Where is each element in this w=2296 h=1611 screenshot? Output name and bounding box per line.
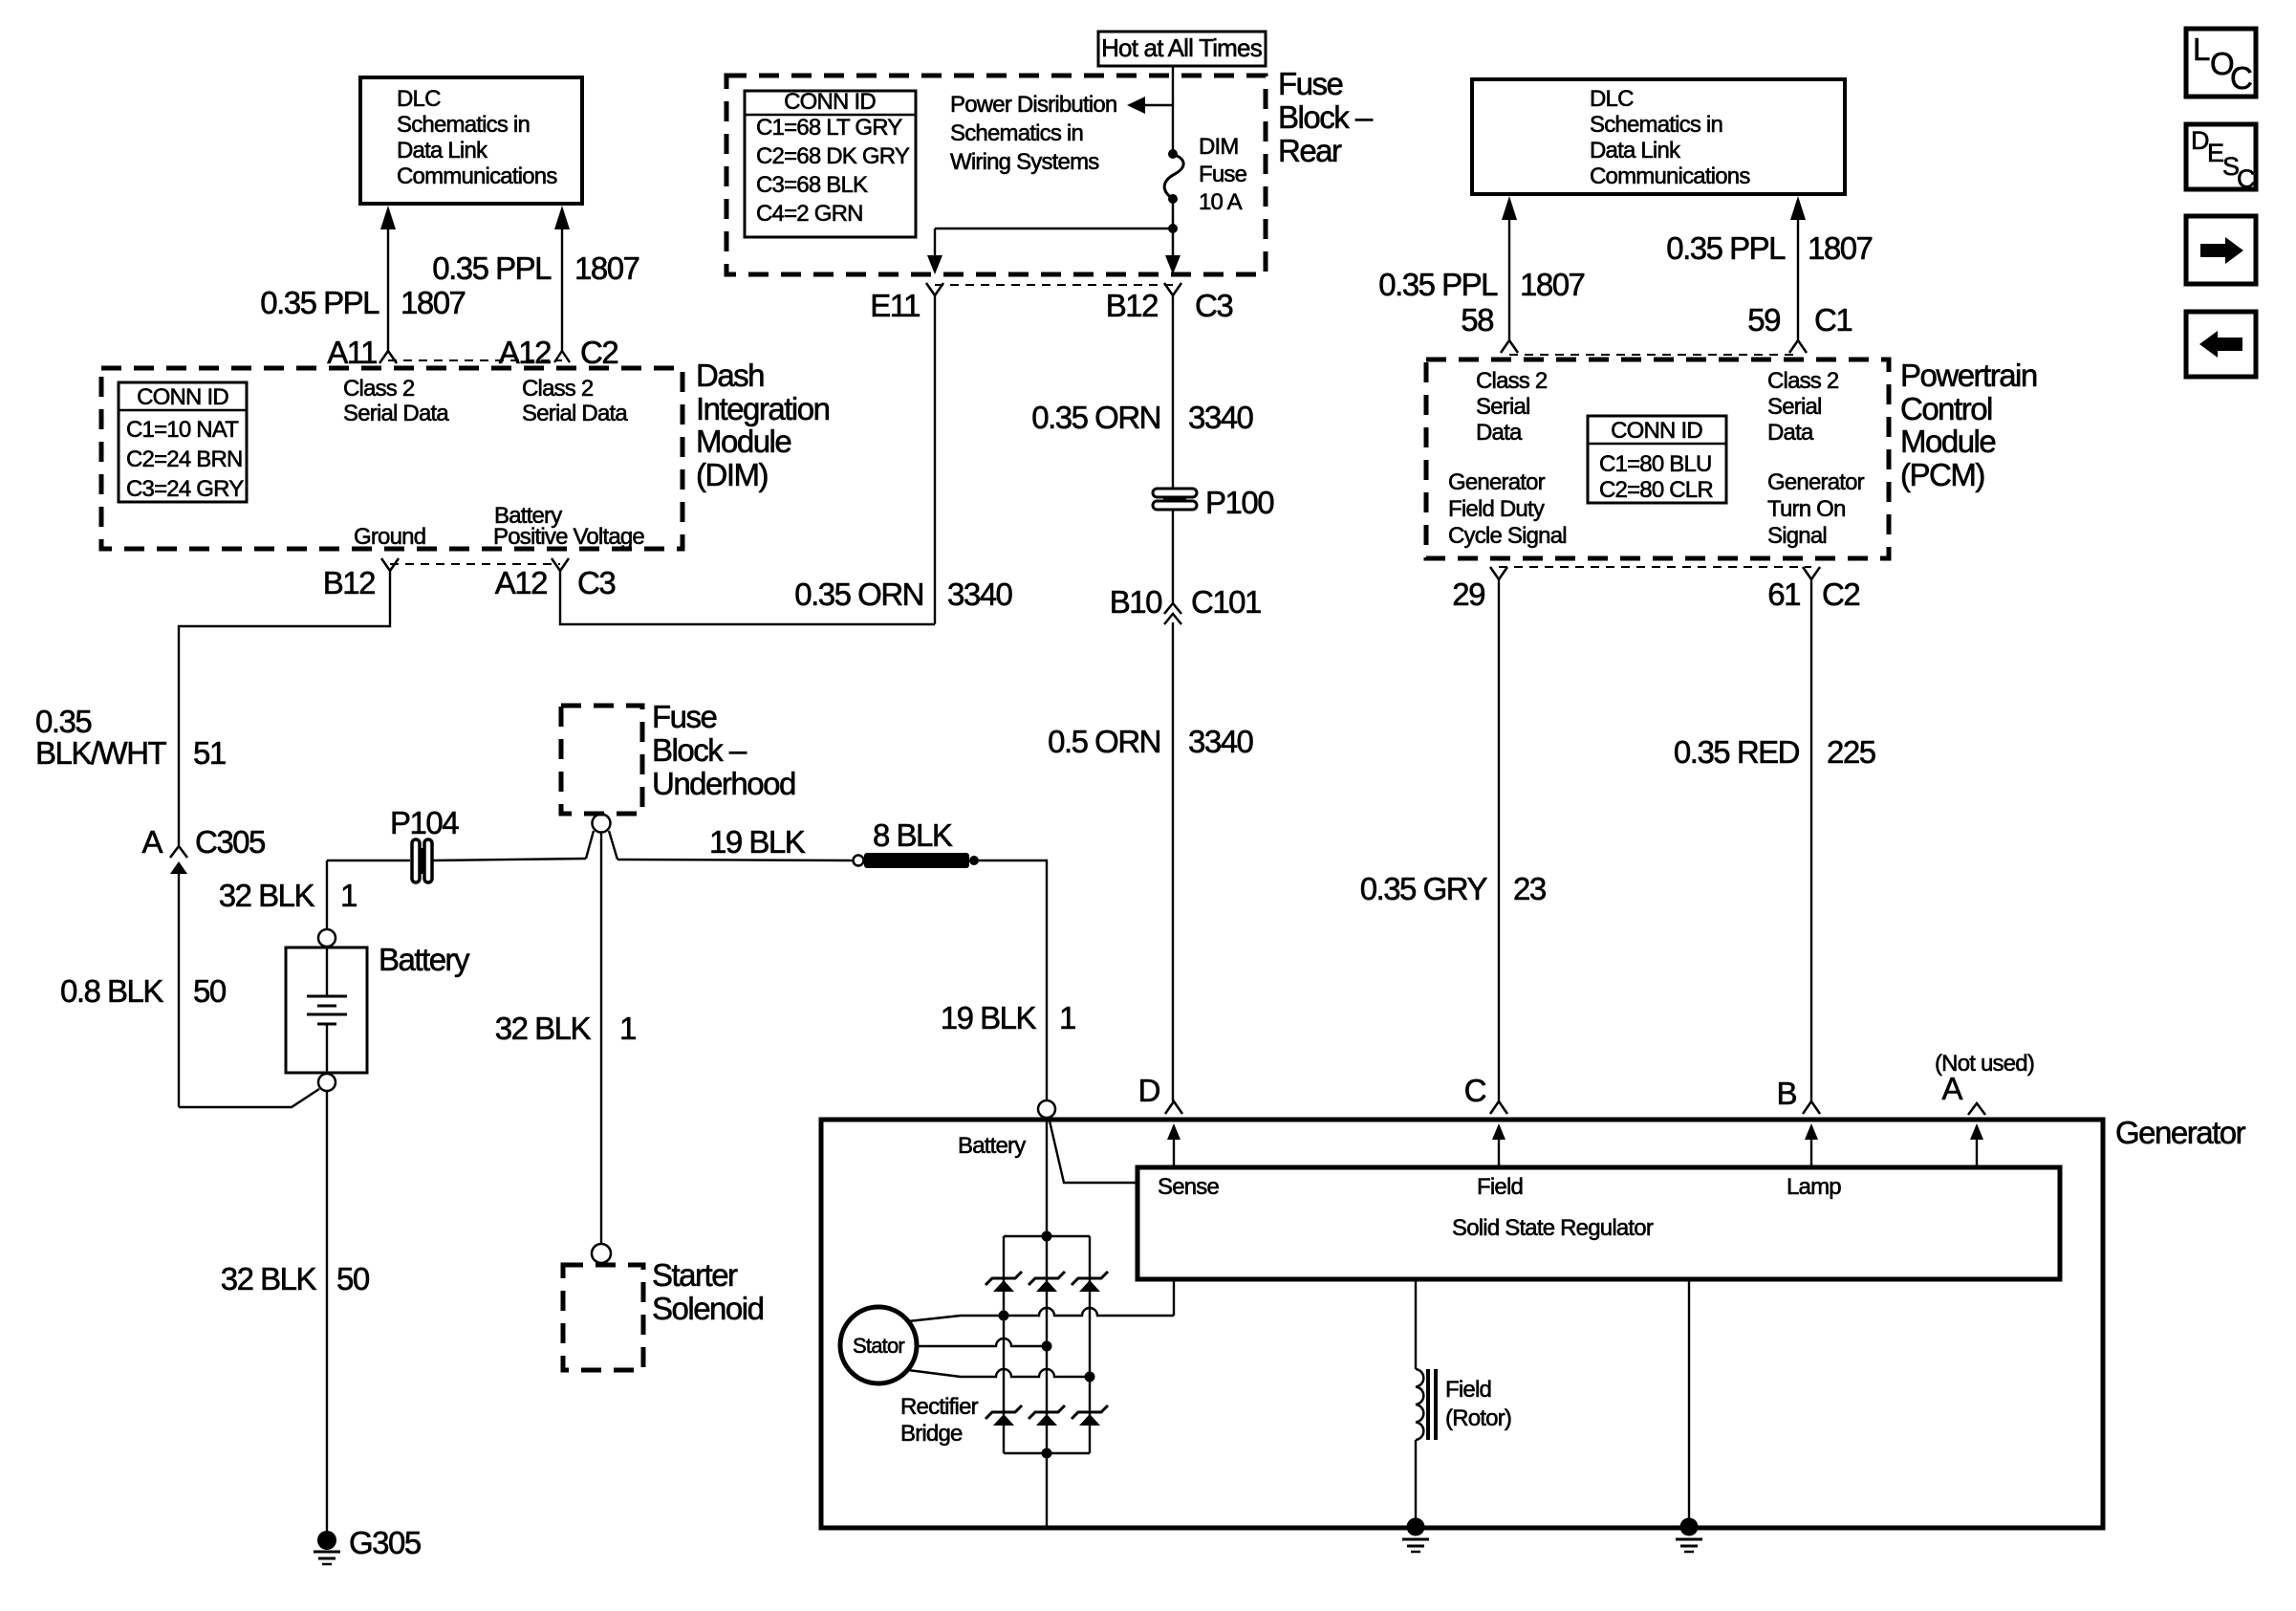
- svg-text:CONN ID: CONN ID: [137, 384, 228, 410]
- wire battery positive up: [326, 860, 328, 929]
- svg-text:C: C: [1464, 1073, 1486, 1108]
- svg-text:C2=68 DK GRY: C2=68 DK GRY: [756, 143, 910, 169]
- rectifier bridge frame: [1004, 1231, 1090, 1459]
- diode D6: [1072, 1405, 1108, 1426]
- svg-text:(Rotor): (Rotor): [1445, 1405, 1511, 1431]
- wire battery negative down to G305: [326, 1091, 328, 1532]
- connector dashed line A11-A12: [388, 359, 562, 361]
- PCM pin descriptions: [1448, 368, 1865, 549]
- ground (field rotor): [1402, 1518, 1429, 1553]
- pin A (Not used): [1935, 1051, 2034, 1115]
- svg-text:Hot at All Times: Hot at All Times: [1101, 33, 1263, 62]
- label 0.35 PPL 1807 (pin 58 wire): [1378, 267, 1584, 302]
- pin D: [1138, 1073, 1182, 1114]
- wire bridge to generator case: [1046, 1453, 1048, 1526]
- svg-text:0.8 BLK: 0.8 BLK: [60, 973, 163, 1009]
- svg-text:0.35 ORN: 0.35 ORN: [794, 577, 923, 612]
- svg-text:1807: 1807: [1808, 230, 1873, 266]
- svg-text:C1: C1: [1814, 302, 1852, 337]
- svg-text:51: 51: [193, 735, 226, 771]
- wire 0.35 RED pin 61 to generator B: [1810, 579, 1812, 1101]
- svg-text:Signal: Signal: [1767, 523, 1827, 549]
- pin 29: [1452, 567, 1507, 612]
- svg-text:Generator: Generator: [2115, 1115, 2246, 1150]
- svg-text:Data: Data: [1767, 420, 1814, 446]
- svg-text:C3: C3: [1195, 288, 1232, 323]
- right-arrow navigation box: [2186, 216, 2256, 284]
- stator phase wire 2: [917, 1339, 1052, 1352]
- pin B: [1776, 1076, 1820, 1114]
- svg-text:C3=24 GRY: C3=24 GRY: [126, 476, 244, 502]
- svg-text:59: 59: [1747, 302, 1780, 337]
- label 32 BLK 1 (battery positive): [219, 878, 357, 913]
- DIM module label: [696, 358, 830, 492]
- Powertrain Control Module (PCM) dashed box: [1426, 359, 1889, 558]
- wire branch to E11 with down arrow: [927, 229, 1173, 274]
- svg-text:Block –: Block –: [652, 732, 747, 768]
- svg-text:C: C: [2230, 60, 2252, 96]
- svg-text:61: 61: [1767, 577, 1800, 612]
- svg-text:Control: Control: [1900, 391, 1992, 426]
- svg-text:P100: P100: [1205, 485, 1274, 520]
- svg-text:A11: A11: [327, 335, 377, 370]
- svg-text:Solid State Regulator: Solid State Regulator: [1452, 1215, 1654, 1241]
- svg-text:Generator: Generator: [1448, 469, 1546, 495]
- svg-text:32 BLK: 32 BLK: [219, 878, 315, 913]
- wire 0.8 BLK 50 vertical: [178, 874, 180, 1107]
- svg-text:Rear: Rear: [1278, 133, 1342, 168]
- svg-text:C1=68 LT GRY: C1=68 LT GRY: [756, 115, 902, 141]
- CONN ID table (PCM): [1588, 416, 1726, 503]
- svg-text:32 BLK: 32 BLK: [221, 1261, 317, 1296]
- svg-text:225: 225: [1827, 734, 1875, 770]
- wire A12/C3 battery positive run to E11: [560, 571, 935, 624]
- sense terminal label pointer wire: [1046, 1118, 1048, 1236]
- svg-text:0.5 ORN: 0.5 ORN: [1048, 724, 1160, 759]
- internal arrow A to regulator: [1970, 1123, 1983, 1167]
- svg-text:10 A: 10 A: [1199, 189, 1243, 215]
- svg-text:50: 50: [336, 1261, 370, 1296]
- ground G305: [314, 1525, 421, 1564]
- svg-text:29: 29: [1452, 577, 1484, 612]
- svg-text:Schematics in: Schematics in: [397, 112, 530, 138]
- svg-text:B12: B12: [1106, 288, 1158, 323]
- left-arrow navigation box: [2186, 312, 2256, 377]
- wire B12 ground run (down, left, down to C305): [179, 571, 390, 845]
- splice P104: [390, 805, 459, 882]
- wire hot feed down from Hot at All Times: [1172, 66, 1174, 153]
- svg-text:1807: 1807: [574, 250, 639, 286]
- svg-text:Ground: Ground: [354, 524, 425, 550]
- PCM module label: [1900, 358, 2037, 492]
- svg-text:1807: 1807: [1520, 267, 1585, 302]
- label 0.5 ORN 3340: [1048, 724, 1253, 759]
- label 0.35 RED 225: [1674, 734, 1875, 770]
- svg-text:Fuse: Fuse: [1199, 162, 1247, 187]
- label 0.35 BLK/WHT 51: [35, 704, 226, 771]
- svg-text:A12: A12: [495, 565, 547, 600]
- svg-text:Field Duty: Field Duty: [1448, 496, 1545, 522]
- svg-text:Positive Voltage: Positive Voltage: [493, 524, 644, 550]
- CONN ID table (DIM): [119, 382, 247, 502]
- svg-text:E11: E11: [870, 288, 920, 323]
- svg-text:3340: 3340: [1188, 400, 1254, 435]
- svg-text:CONN ID: CONN ID: [784, 89, 876, 115]
- note Power Disribution Schematics with arrow: [950, 92, 1173, 175]
- diode D1: [986, 1272, 1022, 1292]
- splice P100: [1153, 485, 1274, 520]
- stator phase wire 1: [908, 1279, 1174, 1321]
- connector dashed line B12-A12: [390, 563, 560, 565]
- svg-text:3340: 3340: [1188, 724, 1254, 759]
- wire E11 vertical: [934, 295, 936, 624]
- svg-text:Communications: Communications: [1590, 163, 1750, 189]
- svg-text:1: 1: [1059, 1000, 1075, 1035]
- svg-text:Powertrain: Powertrain: [1900, 358, 2037, 393]
- battery B1: [286, 929, 470, 1091]
- svg-text:Schematics in: Schematics in: [950, 120, 1083, 146]
- svg-text:Data: Data: [1476, 420, 1523, 446]
- wire 19 BLK horizontal: [617, 860, 854, 860]
- svg-text:C2: C2: [1822, 577, 1859, 612]
- Solid State Regulator box: [1137, 1167, 2060, 1279]
- svg-text:Power Disribution: Power Disribution: [950, 92, 1116, 118]
- svg-text:32 BLK: 32 BLK: [495, 1011, 592, 1046]
- wire A12 to DLC with arrow: [554, 206, 570, 351]
- svg-text:A12: A12: [499, 335, 551, 370]
- svg-text:C305: C305: [195, 824, 265, 860]
- LOC navigation box: [2186, 29, 2256, 97]
- battery terminal junction node: [1038, 1100, 1055, 1118]
- starter solenoid terminal circle: [592, 1244, 611, 1263]
- svg-text:0.35 PPL: 0.35 PPL: [260, 285, 379, 320]
- svg-text:Wiring Systems: Wiring Systems: [950, 149, 1099, 175]
- svg-text:DIM: DIM: [1199, 134, 1239, 160]
- svg-text:Battery: Battery: [379, 942, 470, 977]
- svg-text:C: C: [2237, 164, 2256, 193]
- pin 58: [1461, 302, 1518, 353]
- wire P104 to fuse block junction: [433, 859, 586, 860]
- ground (regulator): [1676, 1518, 1702, 1553]
- svg-text:C2=80 CLR: C2=80 CLR: [1599, 477, 1713, 503]
- wire 0.35 GRY pin 29 to generator C: [1498, 579, 1500, 1101]
- svg-text:B12: B12: [323, 565, 375, 600]
- pin A12 / C2: [499, 335, 618, 370]
- svg-text:C2=24 BRN: C2=24 BRN: [126, 446, 243, 472]
- svg-text:Solenoid: Solenoid: [652, 1291, 764, 1326]
- svg-text:Fuse: Fuse: [652, 699, 717, 734]
- svg-text:Lamp: Lamp: [1787, 1174, 1841, 1200]
- svg-text:0.35 RED: 0.35 RED: [1674, 734, 1800, 770]
- stator phase wire 3: [908, 1369, 1095, 1382]
- label 0.35 ORN 3340 (fuse output): [1031, 400, 1253, 435]
- svg-text:Fuse: Fuse: [1278, 66, 1343, 101]
- svg-text:0.35 PPL: 0.35 PPL: [432, 250, 552, 286]
- svg-text:19 BLK: 19 BLK: [709, 824, 806, 860]
- svg-text:8 BLK: 8 BLK: [873, 817, 953, 853]
- svg-text:DLC: DLC: [1590, 86, 1634, 112]
- svg-text:Class 2: Class 2: [522, 376, 594, 402]
- svg-text:0.35: 0.35: [35, 704, 91, 739]
- svg-text:C1=80 BLU: C1=80 BLU: [1599, 451, 1712, 477]
- svg-text:Block –: Block –: [1278, 99, 1374, 135]
- wire 32 BLK 1 down to starter solenoid: [600, 832, 602, 1243]
- svg-text:Dash: Dash: [696, 358, 764, 393]
- diode D3: [1072, 1272, 1108, 1292]
- svg-text:Module: Module: [1900, 424, 1995, 459]
- wire battery feed horizontal: [327, 860, 410, 861]
- svg-text:Stator: Stator: [853, 1334, 904, 1358]
- connector dashed line 29-61: [1499, 566, 1811, 568]
- connector C101 inline: [1110, 584, 1261, 624]
- diode D4: [986, 1405, 1022, 1426]
- field rotor coil L1: [1416, 1279, 1511, 1526]
- svg-text:1: 1: [619, 1011, 636, 1046]
- label 0.35 PPL 1807 (pin 59 wire): [1666, 230, 1872, 266]
- wire A11 to DLC with arrow: [380, 206, 396, 351]
- svg-text:CONN ID: CONN ID: [1611, 418, 1702, 444]
- svg-text:Sense: Sense: [1158, 1174, 1220, 1200]
- wire to generator battery junction: [979, 860, 1047, 1099]
- Fuse Block Underhood dashed box: [561, 699, 795, 814]
- down arrow at B12/C3 inside fuse block: [1165, 255, 1180, 274]
- svg-text:Class 2: Class 2: [343, 376, 415, 402]
- svg-text:Serial Data: Serial Data: [343, 401, 449, 426]
- svg-text:G305: G305: [349, 1525, 421, 1560]
- svg-text:0.35 GRY: 0.35 GRY: [1360, 871, 1488, 906]
- stator: [840, 1307, 917, 1383]
- pin A12 / C3 (DIM battery): [495, 558, 616, 600]
- svg-text:A: A: [141, 824, 162, 860]
- wire regulator to case ground: [1688, 1279, 1690, 1526]
- svg-text:Serial: Serial: [1476, 394, 1530, 420]
- svg-text:0.35 PPL: 0.35 PPL: [1666, 230, 1786, 266]
- wire fuse output to junction: [1172, 199, 1175, 258]
- pin B12 / C3 (fuse block): [1106, 283, 1233, 323]
- svg-text:1807: 1807: [401, 285, 466, 320]
- CONN ID table (Fuse Block Rear): [745, 89, 916, 237]
- svg-text:Schematics in: Schematics in: [1590, 112, 1722, 138]
- DLC box (right): [1472, 79, 1845, 194]
- svg-text:P104: P104: [390, 805, 459, 840]
- svg-text:Underhood: Underhood: [652, 766, 795, 801]
- label 0.8 BLK 50: [60, 973, 227, 1009]
- DESC navigation box: [2186, 124, 2256, 193]
- svg-text:Module: Module: [696, 424, 791, 459]
- svg-text:Battery: Battery: [958, 1133, 1026, 1159]
- label 0.35 PPL 1807 (A12 wire): [432, 250, 639, 286]
- svg-text:C3: C3: [577, 565, 615, 600]
- svg-text:0.35 ORN: 0.35 ORN: [1031, 400, 1160, 435]
- fusible link 8 BLK: [854, 817, 980, 868]
- diode D5: [1029, 1405, 1065, 1426]
- rectifier bridge label: [900, 1394, 979, 1447]
- internal arrow B to regulator: [1805, 1123, 1818, 1167]
- DIM pin descriptions: [343, 376, 644, 550]
- pin 59 / C1: [1747, 302, 1852, 353]
- svg-text:50: 50: [193, 973, 227, 1009]
- svg-text:Generator: Generator: [1767, 469, 1865, 495]
- svg-text:Communications: Communications: [397, 163, 557, 189]
- wire pin 59 to DLC with arrow: [1790, 196, 1806, 340]
- wire B12/C3 down to P100: [1172, 295, 1174, 490]
- svg-text:19 BLK: 19 BLK: [941, 1000, 1037, 1035]
- label 19 BLK 1: [941, 1000, 1075, 1035]
- pin E11: [870, 283, 943, 323]
- svg-text:1: 1: [340, 878, 357, 913]
- internal arrow C to regulator: [1492, 1123, 1505, 1167]
- svg-text:23: 23: [1513, 871, 1546, 906]
- svg-text:Class 2: Class 2: [1476, 368, 1548, 394]
- svg-text:0.35 PPL: 0.35 PPL: [1378, 267, 1498, 302]
- fuse block underhood terminal circle: [593, 815, 611, 833]
- wire 0.5 ORN down to generator D: [1172, 622, 1174, 1101]
- svg-text:(DIM): (DIM): [696, 457, 768, 492]
- svg-text:C1=10 NAT: C1=10 NAT: [126, 417, 239, 443]
- svg-text:B: B: [1776, 1076, 1796, 1111]
- svg-text:DLC: DLC: [397, 86, 441, 112]
- label 0.35 ORN 3340 (battery positive wire): [794, 577, 1012, 612]
- pin B12 (DIM ground): [323, 558, 399, 600]
- svg-text:Serial Data: Serial Data: [522, 401, 628, 426]
- svg-text:Turn On: Turn On: [1767, 496, 1846, 522]
- Dash Integration Module (DIM) dashed box: [101, 368, 682, 549]
- Hot at All Times box: [1098, 32, 1266, 66]
- svg-text:L: L: [2193, 32, 2210, 67]
- DLC box (left): [360, 77, 582, 204]
- label 0.35 PPL 1807 (A11 wire): [260, 285, 465, 320]
- svg-text:58: 58: [1461, 302, 1493, 337]
- svg-text:Data Link: Data Link: [1590, 138, 1681, 163]
- svg-text:B10: B10: [1110, 584, 1162, 620]
- pin A11: [327, 335, 397, 370]
- svg-text:D: D: [1138, 1073, 1160, 1108]
- Fuse Block Rear dashed box: [726, 66, 1374, 274]
- wire pin 58 to DLC with arrow: [1502, 196, 1517, 340]
- pin 61 / C2: [1767, 567, 1859, 612]
- svg-text:Serial: Serial: [1767, 394, 1822, 420]
- connector C305 inline: [141, 824, 265, 874]
- label 32 BLK 1 (starter wire): [495, 1011, 636, 1046]
- svg-text:C3=68 BLK: C3=68 BLK: [756, 172, 868, 198]
- svg-text:Class 2: Class 2: [1767, 368, 1839, 394]
- svg-text:Integration: Integration: [696, 391, 830, 426]
- fuse DIM Fuse 10 A: [1164, 134, 1246, 215]
- svg-text:C4=2 GRN: C4=2 GRN: [756, 201, 863, 227]
- svg-text:BLK/WHT: BLK/WHT: [35, 735, 167, 771]
- connector dashed line E11-B12: [935, 284, 1173, 286]
- svg-text:Rectifier: Rectifier: [900, 1394, 979, 1420]
- svg-text:C2: C2: [580, 335, 617, 370]
- svg-text:(PCM): (PCM): [1900, 457, 1984, 492]
- Generator box: [821, 1115, 2246, 1528]
- wire P100 to C101: [1172, 509, 1174, 602]
- wire to battery negative: [179, 1089, 319, 1107]
- junction Y legs at fuse block underhood: [586, 831, 594, 859]
- svg-text:C101: C101: [1191, 584, 1261, 620]
- connector dashed line 58-59: [1509, 354, 1798, 356]
- svg-text:Bridge: Bridge: [900, 1421, 963, 1447]
- svg-text:A: A: [1941, 1071, 1962, 1106]
- svg-text:Field: Field: [1445, 1377, 1491, 1403]
- svg-text:Field: Field: [1477, 1174, 1523, 1200]
- label 32 BLK 50: [221, 1261, 370, 1296]
- svg-text:Starter: Starter: [652, 1257, 738, 1293]
- junction node in fuse block: [1168, 224, 1178, 233]
- wire junction to sense input: [1049, 1117, 1137, 1183]
- Starter Solenoid dashed box: [563, 1257, 764, 1370]
- svg-text:Data Link: Data Link: [397, 138, 488, 163]
- pin C: [1464, 1073, 1507, 1114]
- label 0.35 GRY 23: [1360, 871, 1546, 906]
- diode D2: [1029, 1272, 1065, 1292]
- svg-text:Cycle Signal: Cycle Signal: [1448, 523, 1567, 549]
- internal arrow D to regulator: [1167, 1123, 1180, 1167]
- svg-text:3340: 3340: [947, 577, 1013, 612]
